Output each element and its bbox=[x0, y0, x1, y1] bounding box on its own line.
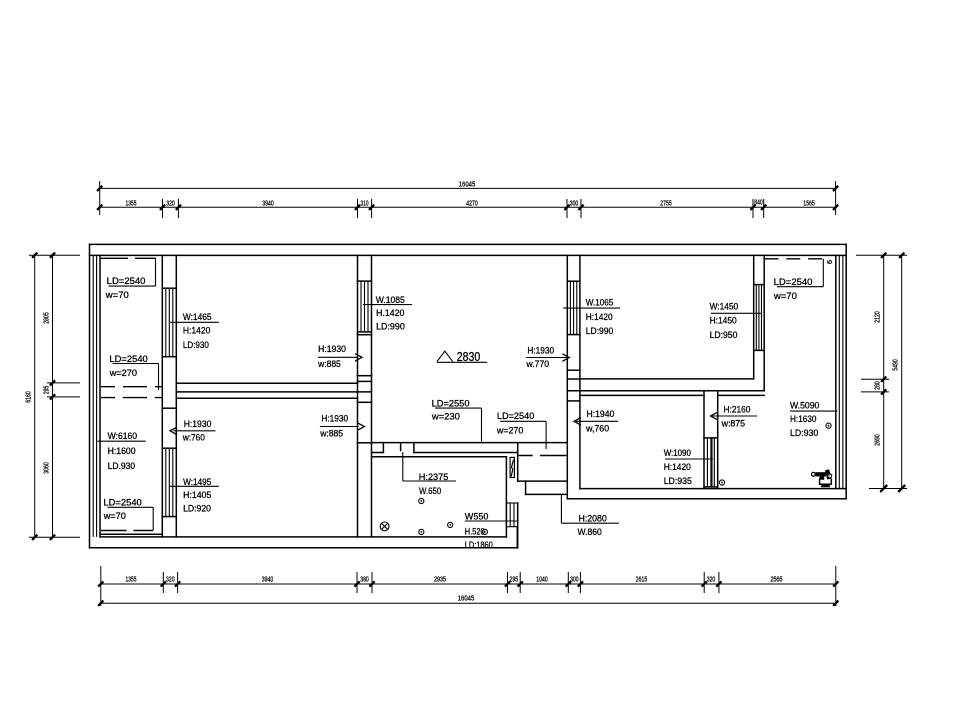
svg-text:4270: 4270 bbox=[466, 198, 478, 207]
svg-text:w=230: w=230 bbox=[431, 412, 460, 422]
svg-text:LD=2540: LD=2540 bbox=[109, 354, 147, 364]
svg-text:LD:930: LD:930 bbox=[790, 428, 818, 438]
svg-text:H:1420: H:1420 bbox=[183, 326, 211, 336]
svg-text:H:2375: H:2375 bbox=[419, 472, 449, 482]
svg-text:1355: 1355 bbox=[126, 198, 137, 207]
svg-text:3940: 3940 bbox=[262, 198, 274, 207]
svg-text:H:1405: H:1405 bbox=[183, 490, 211, 500]
svg-text:LD=2540: LD=2540 bbox=[103, 498, 141, 508]
svg-text:W.860: W.860 bbox=[578, 527, 602, 537]
svg-text:2565: 2565 bbox=[771, 575, 783, 584]
svg-text:2805: 2805 bbox=[42, 312, 51, 324]
svg-text:w.770: w.770 bbox=[526, 359, 550, 369]
svg-text:LD:990: LD:990 bbox=[586, 326, 614, 336]
svg-text:w=70: w=70 bbox=[773, 291, 797, 301]
svg-text:LD=2540: LD=2540 bbox=[497, 411, 534, 421]
svg-text:w=70: w=70 bbox=[103, 511, 126, 521]
svg-text:2690: 2690 bbox=[873, 434, 882, 446]
svg-text:H:1930: H:1930 bbox=[321, 414, 348, 424]
svg-text:2935: 2935 bbox=[434, 575, 446, 584]
svg-text:3060: 3060 bbox=[42, 462, 51, 474]
svg-text:3940: 3940 bbox=[262, 575, 274, 584]
svg-text:H:2160: H:2160 bbox=[724, 404, 751, 414]
svg-text:H.1420: H.1420 bbox=[376, 308, 404, 318]
svg-text:W.1065: W.1065 bbox=[586, 298, 614, 308]
svg-text:W:6160: W:6160 bbox=[108, 431, 138, 441]
svg-text:W:1450: W:1450 bbox=[710, 302, 739, 312]
svg-text:w:875: w:875 bbox=[721, 418, 745, 428]
svg-text:320: 320 bbox=[166, 198, 175, 207]
svg-text:H:1940: H:1940 bbox=[587, 409, 615, 419]
svg-text:W.650: W.650 bbox=[419, 486, 441, 496]
svg-text:H:1630: H:1630 bbox=[790, 414, 817, 424]
svg-text:W.1085: W.1085 bbox=[376, 295, 405, 305]
svg-text:320: 320 bbox=[166, 575, 175, 584]
svg-text:1565: 1565 bbox=[803, 198, 815, 207]
svg-text:5490: 5490 bbox=[891, 359, 900, 371]
svg-text:H:1420: H:1420 bbox=[586, 312, 613, 322]
svg-text:H:1600: H:1600 bbox=[108, 446, 136, 456]
svg-text:H.520: H.520 bbox=[465, 527, 485, 537]
svg-text:1355: 1355 bbox=[126, 575, 137, 584]
svg-text:LD=2540: LD=2540 bbox=[107, 276, 146, 286]
svg-text:w=70: w=70 bbox=[105, 290, 129, 300]
svg-text:295: 295 bbox=[510, 575, 519, 584]
svg-text:W:1495: W:1495 bbox=[183, 477, 211, 487]
svg-text:300: 300 bbox=[570, 575, 579, 584]
svg-text:280: 280 bbox=[873, 381, 882, 390]
svg-text:w=270: w=270 bbox=[109, 368, 137, 378]
svg-text:380: 380 bbox=[360, 575, 369, 584]
svg-text:2120: 2120 bbox=[873, 311, 882, 323]
svg-text:w:885: w:885 bbox=[317, 359, 341, 369]
svg-text:295: 295 bbox=[42, 386, 51, 395]
svg-text:LD:1860: LD:1860 bbox=[465, 540, 493, 550]
svg-text:W:1465: W:1465 bbox=[183, 312, 212, 322]
svg-text:W550: W550 bbox=[465, 512, 489, 522]
svg-text:LD:935: LD:935 bbox=[664, 476, 692, 486]
svg-text:LD:950: LD:950 bbox=[710, 330, 738, 340]
svg-text:320: 320 bbox=[707, 575, 716, 584]
svg-text:w:760: w:760 bbox=[182, 433, 205, 443]
svg-text:2615: 2615 bbox=[636, 575, 648, 584]
svg-text:LD.930: LD.930 bbox=[108, 461, 136, 471]
svg-text:2755: 2755 bbox=[660, 198, 672, 207]
svg-text:w=270: w=270 bbox=[496, 426, 523, 436]
svg-text:300: 300 bbox=[570, 198, 579, 207]
svg-text:W:1090: W:1090 bbox=[664, 448, 691, 458]
svg-text:LD:920: LD:920 bbox=[183, 504, 211, 514]
svg-text:6160: 6160 bbox=[24, 391, 33, 403]
svg-text:2830: 2830 bbox=[457, 349, 481, 364]
svg-text:LD:930: LD:930 bbox=[183, 340, 209, 350]
svg-text:LD:990: LD:990 bbox=[376, 321, 405, 331]
svg-text:16045: 16045 bbox=[459, 180, 476, 189]
svg-text:1040: 1040 bbox=[536, 575, 548, 584]
svg-text:6: 6 bbox=[825, 260, 834, 264]
svg-text:H:1930: H:1930 bbox=[184, 419, 212, 429]
svg-text:840: 840 bbox=[754, 197, 763, 206]
svg-text:H:1450: H:1450 bbox=[710, 316, 737, 326]
svg-text:310: 310 bbox=[361, 198, 369, 207]
svg-text:H:1930: H:1930 bbox=[318, 344, 346, 354]
svg-text:LD=2540: LD=2540 bbox=[774, 277, 813, 287]
svg-text:LD=2550: LD=2550 bbox=[432, 398, 470, 408]
svg-text:H:1420: H:1420 bbox=[664, 462, 691, 472]
svg-text:16045: 16045 bbox=[458, 594, 475, 603]
svg-text:H:1930: H:1930 bbox=[527, 345, 554, 355]
svg-text:w:885: w:885 bbox=[319, 428, 343, 438]
svg-text:w,760: w,760 bbox=[585, 423, 609, 433]
svg-text:W.5090: W.5090 bbox=[790, 400, 819, 410]
svg-text:H:2080: H:2080 bbox=[579, 513, 607, 523]
